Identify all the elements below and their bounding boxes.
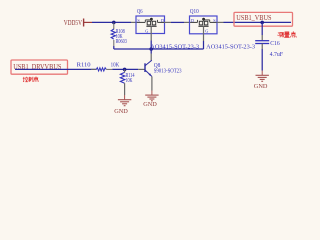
pin Q8 base (138, 68, 145, 70)
svg-text:R0603: R0603 (116, 38, 127, 45)
svg-text:10K: 10K (126, 77, 133, 84)
svg-text:R110: R110 (77, 63, 91, 69)
junction gate Q6 (149, 47, 153, 51)
resistor R114 (120, 69, 135, 95)
transistor Q6 (PMOS AO3415) (136, 9, 165, 34)
svg-text:USB1_VBUS: USB1_VBUS (236, 13, 271, 22)
wire R110 to Q8 base (112, 68, 138, 70)
annotation box USB1_DRVVBUS (11, 60, 68, 74)
svg-text:S9013-SOT23: S9013-SOT23 (154, 69, 182, 75)
junction above C16 (260, 21, 264, 25)
pin Q6 D (164, 21, 171, 23)
ground under R114 (114, 95, 131, 115)
pin Q6 S (131, 21, 137, 23)
pin Q10 G (203, 26, 205, 41)
control wire from net label (15, 68, 97, 70)
pin Q6 G (150, 26, 152, 40)
svg-text:C16: C16 (270, 40, 280, 47)
wire Q6 gate to Q8 collector (150, 41, 152, 54)
svg-text:G: G (145, 29, 148, 34)
resistor R110 (77, 62, 120, 71)
transistor Q8 (NPN S9013) (145, 60, 182, 76)
wire Q6 to Q10 (171, 21, 184, 23)
junction at R114 (123, 68, 127, 72)
pin Q10 S (217, 21, 224, 23)
pin Q10 D (184, 21, 191, 23)
transistor Q10 (PMOS AO3415, mirrored) (190, 9, 218, 34)
junction at R108 top (112, 21, 116, 25)
pin Q8 collector (150, 54, 152, 61)
annotation box USB1_VBUS (234, 12, 293, 26)
power port VDD5V (64, 19, 92, 28)
svg-text:Q6: Q6 (137, 9, 143, 15)
svg-text:GND: GND (254, 83, 268, 90)
wire VDD5V to Q6 (92, 21, 131, 23)
wire Q10 gate (203, 41, 205, 49)
ground under C16 (254, 71, 269, 90)
note 测量点 (278, 31, 297, 37)
capacitor C16 (255, 22, 283, 70)
svg-text:4.7uF: 4.7uF (270, 51, 284, 58)
svg-text:Q10: Q10 (190, 9, 199, 15)
svg-text:AO3415-SOT-23-3: AO3415-SOT-23-3 (206, 44, 255, 50)
ground under Q8 (143, 91, 158, 108)
svg-text:G: G (205, 29, 208, 34)
svg-text:GND: GND (114, 108, 128, 115)
pin Q8 emitter (151, 76, 153, 90)
svg-text:10K: 10K (111, 62, 120, 68)
svg-text:GND: GND (143, 101, 157, 108)
note 控制点 (23, 77, 39, 83)
resistor R108 (111, 22, 127, 49)
svg-text:VDD5V: VDD5V (64, 19, 82, 27)
svg-text:D: D (191, 18, 194, 23)
wire Q10 S to USB1_VBUS (224, 21, 292, 23)
svg-text:D: D (161, 18, 164, 23)
gate wire (R108 to Q10 gate) (114, 48, 204, 50)
